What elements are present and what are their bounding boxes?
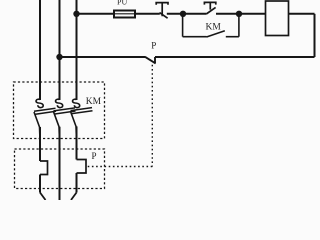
contact KM main 2 blade [54, 108, 76, 114]
svg-text:KM: KM [206, 22, 222, 32]
node junction on L2 [56, 54, 62, 60]
wire L2 to P contact [60, 56, 146, 58]
fuse PU body [114, 11, 135, 18]
dashed link vertical from P contact [151, 65, 153, 167]
pushbutton stop blade [160, 13, 168, 19]
wire through fuse [114, 13, 135, 15]
contact KM main 1 blade [34, 108, 56, 114]
contact KM main 3 blade [71, 108, 93, 114]
wire aux branch right vertical [238, 14, 240, 37]
wire motor lead 1 [40, 193, 46, 201]
thermal contact P stub [154, 57, 156, 63]
wire L3 lower [76, 126, 78, 159]
wire control top from L3 to fuse [77, 13, 115, 15]
contact KM main 2 descender [54, 112, 60, 140]
wire L3 below heater [76, 173, 78, 193]
wire start to node B [216, 13, 239, 15]
wire aux branch bottom left [183, 36, 207, 38]
wire right rail vertical [314, 14, 316, 57]
heater element phase 3 [77, 160, 87, 174]
contact KM main 3 hook [73, 99, 80, 107]
svg-text:P: P [92, 151, 97, 161]
wire fuse to stop button [135, 13, 160, 15]
contact KM main 1 hook [36, 99, 43, 107]
thermal contact P blade [145, 57, 156, 64]
wire node B to coil [239, 13, 266, 15]
wire motor lead 3 [71, 193, 77, 201]
contact KM main 2 hook [56, 99, 63, 107]
wire node A to start button [183, 13, 206, 15]
wire right rail to P contact [155, 56, 315, 58]
contact KM aux blade [207, 31, 225, 37]
node A junction [180, 11, 186, 17]
contact KM main 3 descender [71, 111, 77, 140]
svg-text:PU: PU [117, 0, 127, 7]
wire phase L1 vertical [39, 0, 41, 100]
dashed box thermal relay P [15, 149, 105, 189]
coil KM rectangle [266, 1, 289, 36]
wire aux branch left vertical [182, 14, 184, 37]
svg-text:KM: KM [86, 97, 102, 107]
wire L1 below heater [39, 175, 41, 193]
pushbutton start blade [206, 7, 215, 14]
node B junction [236, 11, 242, 17]
contact KM main 1 descender [34, 112, 40, 140]
dashed link horizontal to heater [86, 166, 152, 168]
dashed box KM main contacts [14, 82, 105, 139]
heater element phase 1 [40, 161, 48, 175]
node junction on L3 [73, 11, 79, 17]
wire phase L3 vertical [76, 0, 78, 100]
wire L1 lower [39, 127, 41, 161]
wire phase L2 vertical [59, 0, 61, 100]
wire stop to node A [167, 13, 183, 15]
wire L2 lower [59, 127, 61, 200]
wire aux branch bottom right [226, 36, 239, 38]
pushbutton stop (NC) actuator [156, 3, 168, 17]
svg-text:P: P [151, 40, 156, 50]
wire coil to right rail [289, 13, 315, 15]
pushbutton start (NO) actuator [204, 2, 215, 9]
